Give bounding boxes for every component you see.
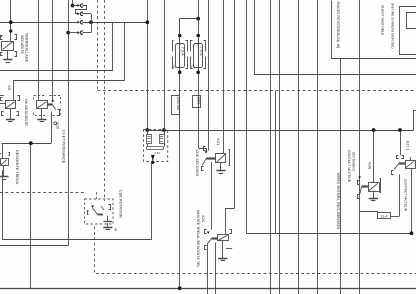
svg-text:VERS SIGNAL INCLINAISON: VERS SIGNAL INCLINAISON <box>336 173 341 230</box>
svg-text:15 A: 15 A <box>381 215 389 219</box>
svg-text:SECURITE: SECURITE <box>20 35 24 54</box>
svg-text:K9: K9 <box>7 86 11 91</box>
svg-text:RADIO REVERSIBLE(LM): RADIO REVERSIBLE(LM) <box>336 2 340 49</box>
svg-text:(RETIRE SI RADIO MONTEE): (RETIRE SI RADIO MONTEE) <box>390 3 394 49</box>
svg-text:1 K7: 1 K7 <box>154 151 161 155</box>
svg-text:K27-1: K27-1 <box>406 141 410 151</box>
svg-text:VERROUILLAGE: VERROUILLAGE <box>24 33 28 63</box>
svg-text:SHUNT AMOVIBLE: SHUNT AMOVIBLE <box>381 5 385 36</box>
svg-text:1256: 1256 <box>197 96 201 104</box>
svg-text:K26: K26 <box>367 163 371 170</box>
svg-text:K10: K10 <box>55 123 59 130</box>
svg-text:7,5 A: 7,5 A <box>199 47 203 56</box>
svg-text:CONTACT MOTEUR: CONTACT MOTEUR <box>403 179 407 212</box>
svg-text:(EN RADIO): (EN RADIO) <box>352 152 356 171</box>
svg-text:K21: K21 <box>216 139 220 146</box>
svg-text:CDE SECOURS: CDE SECOURS <box>195 150 199 177</box>
svg-text:7,5 A: 7,5 A <box>180 47 184 56</box>
svg-text:F2: F2 <box>191 65 195 69</box>
svg-text:CONTACT MOTEUR: CONTACT MOTEUR <box>347 150 351 183</box>
svg-text:DESCENTE TREUIL: DESCENTE TREUIL <box>15 150 19 185</box>
svg-text:K25: K25 <box>201 216 205 222</box>
svg-text:LS ET PUISSANCE: LS ET PUISSANCE <box>62 130 66 164</box>
svg-text:F1: F1 <box>173 65 177 69</box>
svg-text:OK DESCENTE: OK DESCENTE <box>24 99 28 126</box>
svg-text:1250 BA: 1250 BA <box>176 96 180 111</box>
svg-text:CDE ROTATION: CDE ROTATION <box>119 190 123 218</box>
svg-text:MONTEE TREUIL /DESCENTE TEL: MONTEE TREUIL /DESCENTE TEL <box>196 210 200 267</box>
